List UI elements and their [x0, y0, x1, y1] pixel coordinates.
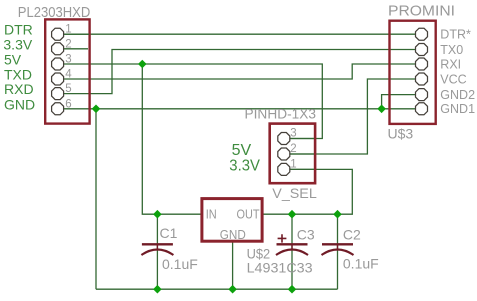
svg-text:3.3V: 3.3V — [3, 36, 32, 52]
svg-text:PINHD-1X3: PINHD-1X3 — [245, 105, 317, 121]
capacitor C2 — [322, 227, 362, 256]
junction rail/C1 — [153, 285, 162, 294]
pin TX0 of PROMINI — [416, 43, 464, 57]
connector U$3 PROMINI box — [390, 21, 436, 124]
svg-text:OUT: OUT — [237, 206, 260, 221]
junction rail/regGND — [228, 285, 237, 294]
pin 2 of PL2303HXD — [52, 38, 88, 55]
svg-text:C1: C1 — [160, 225, 178, 241]
junction GND right (GND1/GND2) — [377, 105, 386, 114]
pin 1 of V_SEL — [278, 159, 314, 176]
wire C3 vertical — [291, 214, 293, 289]
capacitor C1 — [141, 225, 177, 255]
wire C1 vertical — [156, 214, 158, 289]
svg-text:5V: 5V — [4, 52, 22, 68]
regulator U$2 L4931C33 box — [202, 199, 262, 242]
svg-text:L4931C33: L4931C33 — [247, 260, 313, 276]
pin 4 of PL2303HXD — [52, 69, 73, 86]
svg-text:RXI: RXI — [440, 57, 461, 71]
junction rail/C3 — [288, 285, 297, 294]
pin VCC of PROMINI — [416, 72, 467, 86]
svg-text:GND1: GND1 — [440, 102, 475, 116]
svg-text:PL2303HXD: PL2303HXD — [18, 4, 91, 21]
wire net DTR (PL2303 pin1 to PROMINI DTR*) — [64, 33, 416, 35]
svg-text:3: 3 — [290, 128, 296, 140]
pin DTR* of PROMINI — [416, 28, 471, 42]
svg-text:U$3: U$3 — [388, 126, 414, 142]
wire net 5V (PL2303 pin3 to PINHD pin3) — [64, 64, 323, 139]
pin GND1 of PROMINI — [416, 102, 476, 116]
svg-text:C2: C2 — [343, 227, 361, 243]
connector PL2303HXD box — [45, 19, 89, 123]
svg-text:DTR*: DTR* — [440, 28, 471, 42]
wire net GND left drop — [95, 109, 97, 289]
pin 1 of PL2303HXD — [52, 24, 89, 41]
junction GND left — [92, 105, 101, 114]
svg-text:GND: GND — [4, 96, 35, 112]
wire net VCC (PROMINI VCC to PINHD pin2) — [290, 79, 415, 154]
svg-text:TXD: TXD — [4, 66, 32, 82]
svg-text:2: 2 — [65, 38, 71, 50]
junction OUT/C2 — [333, 210, 342, 219]
svg-text:TX0: TX0 — [440, 43, 463, 57]
capacitor C3 (polarized, plus sign) — [276, 227, 315, 256]
pin 2 of V_SEL — [278, 143, 314, 160]
junction IN/C1 — [153, 210, 162, 219]
junction at 5V/IN branch — [138, 60, 147, 69]
svg-text:C3: C3 — [297, 227, 315, 243]
wire net TX0 (PL2303 RXD pin5 jog up to PROMINI TX0) — [64, 50, 416, 94]
pin GND2 of PROMINI — [416, 88, 476, 102]
wire regulator GND pin drop — [232, 242, 234, 289]
svg-text:1: 1 — [290, 159, 296, 171]
svg-text:DTR: DTR — [4, 21, 33, 37]
wire net 3V3 OUT rail to PINHD pin1 — [263, 169, 352, 214]
svg-text:4: 4 — [65, 69, 72, 81]
junction OUT/C3 — [288, 210, 297, 219]
svg-text:GND: GND — [220, 227, 246, 242]
wire net GND main row — [64, 108, 416, 110]
svg-text:6: 6 — [65, 98, 71, 110]
svg-text:2: 2 — [290, 143, 296, 155]
wire net GND branch to GND2 — [382, 95, 416, 109]
svg-text:5: 5 — [65, 83, 71, 95]
svg-text:0.1uF: 0.1uF — [343, 256, 379, 272]
svg-text:VCC: VCC — [440, 72, 466, 86]
svg-text:PROMINI: PROMINI — [388, 2, 455, 19]
pin 5 of PL2303HXD — [52, 83, 72, 100]
svg-text:0.1uF: 0.1uF — [162, 256, 198, 272]
svg-text:3: 3 — [65, 54, 71, 66]
svg-text:1: 1 — [65, 24, 71, 36]
connector V_SEL PINHD-1X3 box — [270, 124, 315, 184]
svg-text:RXD: RXD — [4, 81, 34, 97]
pin 3 of V_SEL — [278, 128, 314, 145]
pin 6 of PL2303HXD — [52, 98, 72, 115]
svg-text:3.3V: 3.3V — [229, 158, 260, 175]
svg-text:IN: IN — [206, 206, 217, 221]
wire net 5V branch to regulator IN — [142, 64, 201, 214]
wire C2 vertical — [337, 214, 339, 289]
svg-text:V_SEL: V_SEL — [272, 185, 317, 201]
wire net GND bottom rail — [96, 288, 338, 290]
svg-text:5V: 5V — [232, 142, 252, 159]
pin 3 of PL2303HXD — [52, 54, 72, 71]
wire net RXI (PL2303 TXD pin4 jog up to PROMINI RXI) — [64, 64, 416, 79]
pin RXI of PROMINI — [416, 57, 462, 71]
svg-text:GND2: GND2 — [440, 88, 475, 102]
